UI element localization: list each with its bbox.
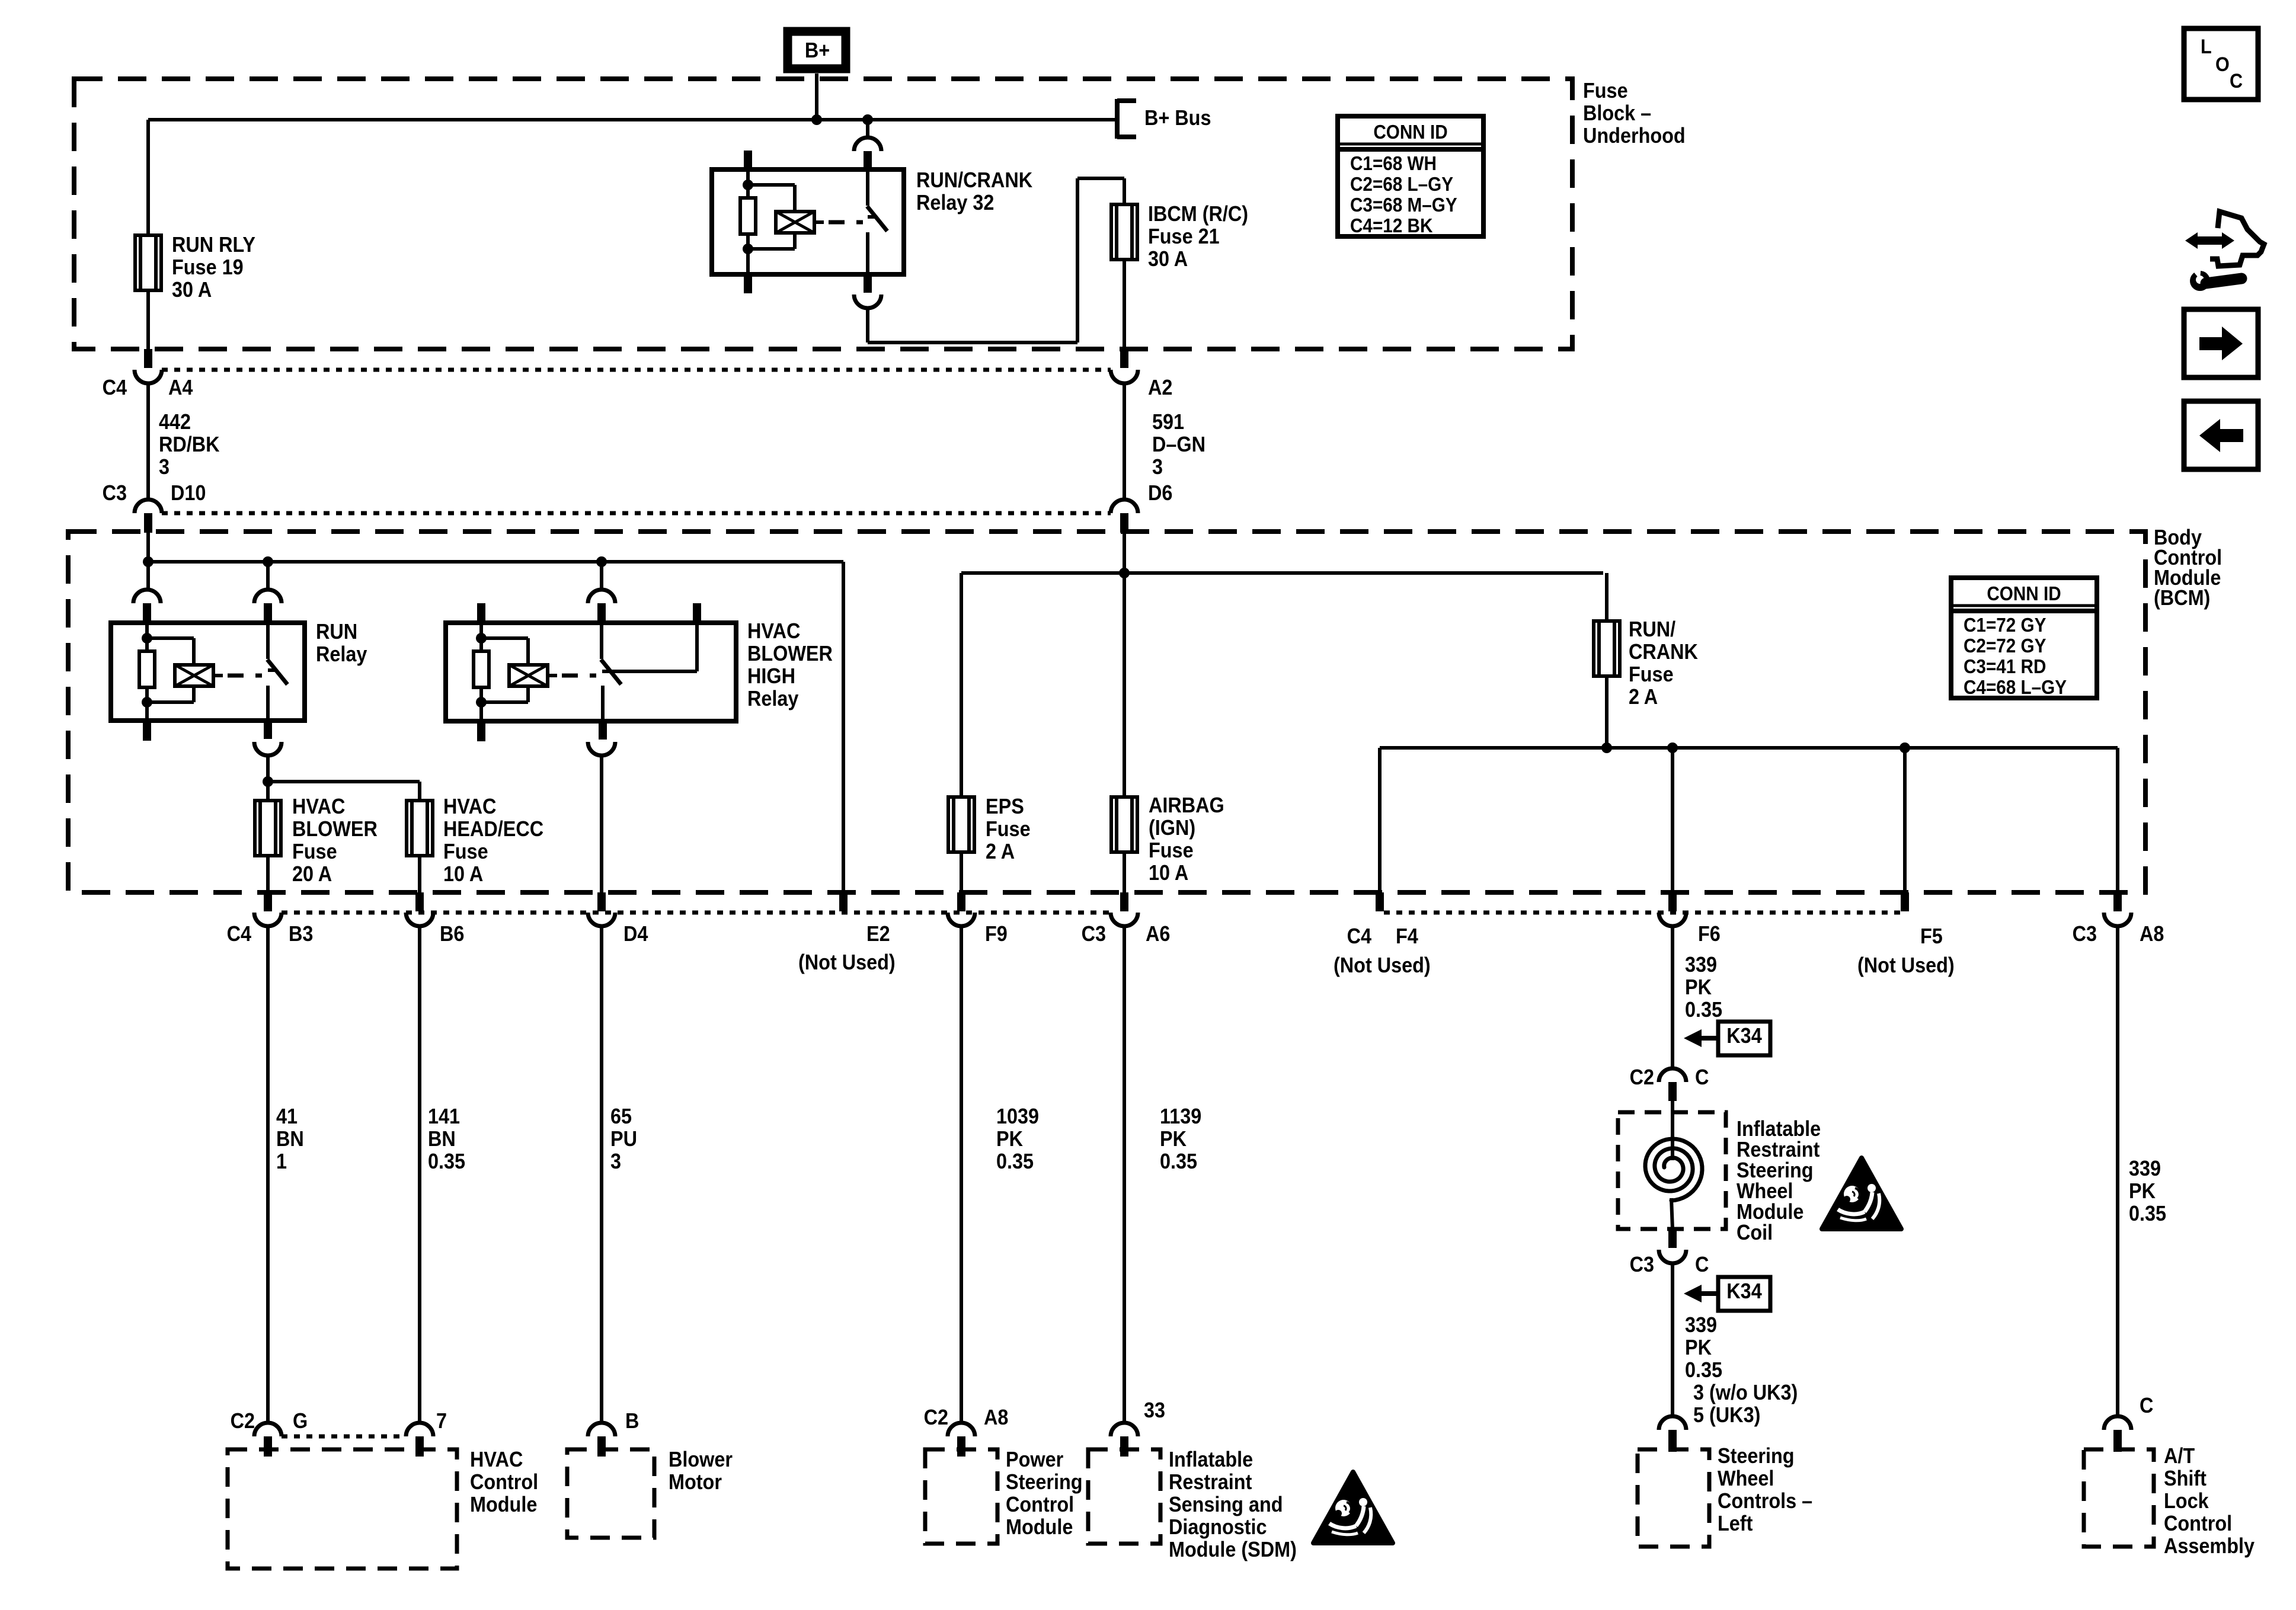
wire relay K32 suppressor lead [814, 220, 824, 224]
switch relay RUN [267, 623, 287, 721]
pin label A4 [168, 376, 193, 399]
wire 1139 PK to SDM [1123, 926, 1126, 1423]
svg-text:Control: Control [1006, 1493, 1074, 1516]
connector C3-D10 [135, 500, 162, 533]
pin label B6 [440, 922, 464, 946]
node rail at F5 [1900, 742, 1910, 753]
wire BCM rail lower [1380, 746, 2118, 750]
airbag warning triangle coil [1822, 1158, 1901, 1229]
dashed link relay K32 [829, 220, 863, 225]
PSCM label [1006, 1448, 1083, 1539]
wire HEAD/ECC fuse to B6 [418, 856, 421, 892]
svg-text:41: 41 [276, 1105, 298, 1128]
CONN ID table fuse block [1338, 116, 1483, 236]
suppressor box relay HVAC [509, 665, 548, 686]
svg-text:Diagnostic: Diagnostic [1169, 1515, 1267, 1539]
svg-text:65: 65 [610, 1105, 632, 1128]
A/T Shift Lock dashed box [2084, 1449, 2154, 1547]
svg-text:C2: C2 [231, 1409, 255, 1433]
wire HVAC BLOWER fuse to B3 [266, 856, 270, 892]
wire into coil [1671, 1101, 1674, 1160]
HVAC Control Module label [470, 1448, 538, 1516]
svg-text:3: 3 [159, 455, 170, 479]
wire 442 RD/BK [146, 383, 150, 500]
svg-text:Relay: Relay [316, 642, 367, 666]
relay K32 label [916, 168, 1032, 215]
wire label 442 RD/BK 3 [159, 410, 220, 479]
connector C2-A8 PSCM [948, 1423, 975, 1457]
Blower Motor dashed box [567, 1449, 654, 1538]
wire 591 D-GN [1123, 383, 1126, 500]
svg-text:CRANK: CRANK [1629, 640, 1698, 664]
wire fuse F21 to connector A2 [1123, 260, 1126, 349]
svg-text:(Not Used): (Not Used) [1857, 953, 1955, 977]
svg-text:339: 339 [2129, 1157, 2161, 1180]
suppressor box relay RUN [175, 665, 213, 686]
svg-text:HEAD/ECC: HEAD/ECC [443, 817, 543, 841]
fuse RUN/CRANK 2A [1594, 621, 1620, 676]
connector C4-A4 [135, 349, 162, 383]
power feed B+ terminal box [788, 31, 846, 69]
svg-text:B+ Bus: B+ Bus [1144, 106, 1211, 130]
svg-text:CONN ID: CONN ID [1373, 121, 1447, 143]
fuse F19 label [172, 233, 255, 302]
svg-text:O: O [2215, 53, 2230, 76]
node relay RUN out branch [263, 776, 273, 787]
svg-text:G: G [293, 1409, 308, 1433]
node junction relay32 tap [862, 114, 873, 125]
svg-text:C4: C4 [103, 376, 127, 399]
svg-text:BN: BN [428, 1127, 456, 1151]
wire rail drop F5 [1903, 748, 1907, 892]
svg-text:C3: C3 [103, 481, 127, 505]
svg-text:HVAC: HVAC [747, 619, 800, 643]
svg-text:F5: F5 [1920, 924, 1943, 948]
svg-text:B+: B+ [805, 39, 830, 62]
svg-text:141: 141 [428, 1105, 460, 1128]
fuse HVAC HEAD/ECC label [443, 795, 543, 886]
wire relay RUN suppressor lead [213, 674, 223, 677]
relay HVAC BLOWER HIGH label [747, 619, 833, 710]
svg-text:Module: Module [1006, 1515, 1073, 1539]
pin label C2 G [231, 1409, 308, 1433]
pin label F5 [1857, 924, 1955, 977]
connector row line F4-F5 [1384, 911, 1901, 915]
pin relay K32 coil bottom stub [744, 274, 752, 293]
SDM label [1169, 1448, 1297, 1561]
svg-text:F4: F4 [1396, 924, 1418, 948]
dashed link relay RUN [228, 674, 262, 678]
svg-text:A4: A4 [168, 376, 193, 399]
relay K32 RUN/CRANK box [712, 169, 904, 274]
svg-text:F9: F9 [985, 922, 1008, 946]
relay RUN label [316, 620, 367, 666]
svg-text:Fuse: Fuse [1149, 838, 1194, 862]
svg-text:0.35: 0.35 [1685, 998, 1722, 1022]
svg-text:Steering: Steering [1737, 1158, 1814, 1182]
wire label 1139 PK 0.35 [1160, 1105, 1201, 1173]
dashed link relay HVAC [562, 674, 596, 678]
svg-text:C1=72 GY: C1=72 GY [1964, 614, 2046, 636]
svg-text:C4=12 BK: C4=12 BK [1350, 215, 1433, 237]
resistor relay K32 coil [740, 198, 756, 234]
pin label D4 [623, 922, 648, 946]
pin label C2 coil [1630, 1065, 1709, 1089]
svg-text:C3: C3 [1082, 922, 1106, 946]
wire bus to relay K32 switch [866, 120, 869, 138]
svg-text:591: 591 [1152, 410, 1184, 434]
connector relay K32 switch-out [854, 274, 881, 308]
svg-text:A6: A6 [1146, 922, 1170, 946]
forward reference arrow box [2184, 309, 2258, 377]
svg-text:C2: C2 [924, 1406, 948, 1429]
switch relay K32 [867, 169, 887, 274]
connector relay RUN coil-in [133, 590, 161, 623]
svg-text:PK: PK [1685, 975, 1712, 999]
wire relay HVAC out to D4 [600, 756, 603, 892]
pin label B [625, 1409, 639, 1433]
svg-text:C3: C3 [1630, 1253, 1654, 1276]
svg-text:B3: B3 [289, 922, 313, 946]
svg-text:Motor: Motor [669, 1470, 722, 1494]
svg-text:Fuse: Fuse [986, 817, 1031, 841]
svg-text:1139: 1139 [1160, 1105, 1201, 1128]
wire label 591 D-GN 3 [1152, 410, 1205, 479]
wire 339 PK A8 to shift lock [2116, 926, 2119, 1416]
pin relay HVAC coil bottom stub [477, 721, 485, 741]
pin label F6 [1698, 922, 1721, 946]
connector F6 [1659, 892, 1686, 926]
fuse EPS label [986, 795, 1031, 863]
wire relay HVAC suppressor branch [481, 638, 528, 702]
svg-text:Fuse: Fuse [443, 840, 488, 863]
fuse HVAC BLOWER 20A [255, 801, 281, 856]
svg-text:2 A: 2 A [1629, 685, 1658, 709]
connector relay RUN switch-in [254, 590, 282, 623]
svg-text:Coil: Coil [1737, 1221, 1773, 1244]
svg-text:K34: K34 [1726, 1024, 1761, 1048]
wire relay RUN suppressor branch [147, 638, 194, 702]
connector C2-C coil [1659, 1068, 1686, 1101]
wire label 339 PK 0.35 upper [1685, 953, 1722, 1022]
svg-text:BLOWER: BLOWER [292, 817, 378, 841]
wire label 41 BN 1 [276, 1105, 304, 1173]
connector D6 [1111, 500, 1138, 533]
svg-text:0.35: 0.35 [996, 1150, 1034, 1173]
svg-text:C: C [1695, 1065, 1709, 1089]
svg-text:C3: C3 [2073, 922, 2097, 946]
node rail at D6 [1119, 568, 1130, 578]
connector relay HVAC common-in [588, 590, 615, 623]
resistor relay RUN coil [139, 651, 155, 687]
relay HVAC BLOWER HIGH box [446, 623, 736, 721]
svg-text:D10: D10 [171, 481, 206, 505]
pin label D6 [1148, 481, 1172, 505]
connector 33 SDM [1111, 1423, 1138, 1457]
vehicle repair icon [2185, 212, 2264, 291]
svg-text:RUN RLY: RUN RLY [172, 233, 255, 257]
B+ Bus label [1144, 106, 1211, 130]
svg-text:A8: A8 [984, 1406, 1008, 1429]
wire bus to HVAC relay common [600, 562, 603, 590]
svg-text:(Not Used): (Not Used) [1334, 953, 1431, 977]
wire label 65 PU 3 [610, 1105, 637, 1173]
connector relay K32 switch-in [854, 137, 881, 169]
svg-text:Control: Control [470, 1470, 538, 1494]
svg-text:D–GN: D–GN [1152, 433, 1205, 456]
pin label C3 [103, 481, 127, 505]
coil spiral symbol [1645, 1139, 1702, 1201]
pin relay RUN coil bottom stub [143, 721, 151, 741]
resistor relay HVAC coil [474, 651, 489, 687]
node bus at RUN relay switch [263, 556, 273, 567]
svg-text:33: 33 [1144, 1398, 1165, 1422]
wire 339 PK coil to steering [1671, 1263, 1674, 1416]
svg-text:Restraint: Restraint [1169, 1470, 1252, 1494]
wire bus down to fuse F19 [146, 120, 150, 235]
fuse AIRBAG label [1149, 793, 1224, 885]
wire AIRBAG fuse to A6 [1123, 852, 1126, 892]
pin label 7 [436, 1409, 447, 1433]
connector B blower motor [588, 1423, 615, 1457]
connector row line C4 [162, 368, 1111, 372]
svg-text:D4: D4 [623, 922, 648, 946]
pin label C4 bottom [227, 922, 251, 946]
pin label C3 coil [1630, 1253, 1709, 1276]
relay RUN box [111, 623, 305, 721]
connector A2 [1111, 349, 1138, 383]
svg-text:Module: Module [470, 1493, 537, 1516]
svg-text:(BCM): (BCM) [2154, 586, 2210, 610]
svg-text:EPS: EPS [986, 795, 1024, 818]
svg-text:PK: PK [1685, 1336, 1712, 1359]
pin E2 label [798, 922, 896, 974]
relay K32 coil wire [746, 169, 750, 274]
Steering Wheel Controls label [1718, 1444, 1812, 1535]
svg-text:(Not Used): (Not Used) [798, 950, 896, 974]
svg-text:Fuse 19: Fuse 19 [172, 255, 244, 279]
svg-text:Block –: Block – [1583, 101, 1651, 125]
svg-text:Sensing and: Sensing and [1169, 1493, 1283, 1516]
node relay K32 coil bottom [743, 244, 753, 254]
pin label F4 [1334, 924, 1431, 977]
svg-text:C: C [1695, 1253, 1709, 1276]
switch relay HVAC [601, 623, 621, 721]
wire 1039 PK to PSCM [960, 926, 963, 1423]
backward reference arrow box [2184, 401, 2258, 469]
svg-text:RUN: RUN [316, 620, 357, 644]
wire BCM rail upper [961, 571, 1603, 575]
pin relay HVAC output top stub [693, 603, 701, 623]
svg-text:Fuse: Fuse [1583, 79, 1628, 103]
A/T Shift Lock label [2164, 1444, 2255, 1558]
wire fuse F19 to connector C4-A4 [146, 290, 150, 349]
wire label UK3 variants [1693, 1381, 1798, 1427]
svg-text:2 A: 2 A [986, 840, 1015, 863]
pin E2 stub not used [839, 892, 848, 911]
wire 41 BN to HVAC control [266, 926, 270, 1423]
node relay K32 coil top [743, 180, 753, 190]
svg-text:PU: PU [610, 1127, 637, 1151]
svg-text:Fuse: Fuse [292, 840, 337, 863]
svg-text:IBCM (R/C): IBCM (R/C) [1148, 202, 1248, 226]
svg-text:Fuse: Fuse [1629, 662, 1674, 686]
pin label C2 A8 [924, 1406, 1009, 1429]
node junction B+ drop [811, 114, 822, 125]
connector C shift lock [2104, 1416, 2131, 1452]
svg-text:Left: Left [1718, 1512, 1753, 1535]
svg-text:Module (SDM): Module (SDM) [1169, 1538, 1297, 1561]
relay RUN coil wire [145, 623, 149, 721]
wire bus to RUN relay coil [146, 562, 150, 590]
wire label 339 PK 0.35 lower [1685, 1313, 1722, 1382]
connector D4 [588, 892, 615, 926]
wire 339 PK F6 to coil [1671, 926, 1674, 1068]
svg-text:C3=68 M–GY: C3=68 M–GY [1350, 194, 1457, 216]
wire bus drop E2 [842, 562, 845, 892]
svg-text:B6: B6 [440, 922, 464, 946]
svg-text:Wheel: Wheel [1718, 1467, 1774, 1490]
wire relay RUN out [266, 756, 270, 801]
svg-text:BN: BN [276, 1127, 304, 1151]
pin F4 stub not used [1376, 892, 1384, 911]
svg-text:C: C [2230, 70, 2243, 92]
svg-text:BLOWER: BLOWER [747, 642, 833, 665]
Blower Motor label [669, 1448, 733, 1494]
LOC reference box [2184, 28, 2258, 100]
svg-text:HIGH: HIGH [747, 664, 795, 688]
fuse F21 label [1148, 202, 1248, 271]
connector row line D6 [162, 511, 1111, 516]
connector relay RUN switch-out [254, 721, 282, 756]
svg-text:30 A: 30 A [1148, 247, 1188, 271]
svg-text:339: 339 [1685, 1313, 1717, 1337]
node rail at RUN/CRANK fuse [1601, 742, 1612, 753]
svg-text:Restraint: Restraint [1737, 1138, 1819, 1161]
svg-text:D6: D6 [1148, 481, 1172, 505]
wire branch to HEAD/ECC fuse [268, 782, 420, 801]
pin label C shift lock [2140, 1394, 2153, 1417]
pin label C4 [103, 376, 127, 399]
connector C3-C coil [1659, 1229, 1686, 1263]
svg-text:C1=68 WH: C1=68 WH [1350, 153, 1437, 175]
fuse AIRBAG IGN 10A [1111, 797, 1137, 852]
svg-text:10 A: 10 A [443, 862, 483, 886]
svg-text:Steering: Steering [1718, 1444, 1795, 1468]
connector relay HVAC switch-out [588, 721, 615, 756]
B+ Bus bracket terminal [1117, 99, 1136, 139]
svg-text:L: L [2201, 36, 2212, 58]
wire rail to RUN/CRANK fuse [1605, 573, 1609, 621]
node bus at D10 [143, 556, 154, 567]
Fuse Block - Underhood dashed box [74, 79, 1572, 349]
wire rail drop F4 [1378, 748, 1382, 892]
wire rail drop F6 [1671, 748, 1674, 892]
suppressor box relay K32 [776, 212, 814, 233]
wire D6 to AIRBAG fuse [1123, 573, 1126, 797]
svg-text:RUN/CRANK: RUN/CRANK [916, 168, 1032, 192]
coil module label [1737, 1117, 1821, 1244]
svg-text:PK: PK [1160, 1127, 1187, 1151]
svg-text:Inflatable: Inflatable [1737, 1117, 1821, 1141]
svg-text:0.35: 0.35 [2129, 1202, 2166, 1225]
wire relay HVAC suppressor lead [548, 674, 557, 677]
pin label 33 [1144, 1398, 1165, 1422]
svg-text:Fuse 21: Fuse 21 [1148, 225, 1220, 248]
svg-text:10 A: 10 A [1149, 861, 1188, 885]
wire EPS fuse to F9 [960, 852, 963, 892]
svg-text:C2: C2 [1630, 1065, 1654, 1089]
wire out of coil [1671, 1198, 1673, 1229]
K34 splice pointer upper [1684, 1022, 1770, 1055]
svg-text:442: 442 [159, 410, 191, 434]
fuse HVAC BLOWER label [292, 795, 378, 886]
wire label 339 PK 0.35 right [2129, 1157, 2166, 1225]
svg-text:E2: E2 [866, 922, 890, 946]
svg-text:1: 1 [276, 1150, 287, 1173]
svg-text:HVAC: HVAC [292, 795, 345, 818]
wire B+ to bus [815, 73, 818, 120]
pin label C3 bottom [1082, 922, 1106, 946]
svg-text:A8: A8 [2140, 922, 2164, 946]
svg-text:0.35: 0.35 [428, 1150, 465, 1173]
Steering Wheel Controls dashed box [1638, 1449, 1709, 1547]
svg-text:Relay 32: Relay 32 [916, 191, 994, 215]
svg-text:RUN/: RUN/ [1629, 617, 1676, 641]
wire D10 into BCM [146, 533, 150, 562]
svg-text:Controls –: Controls – [1718, 1489, 1812, 1513]
connector row line B3-A6 [282, 911, 1111, 915]
node rail at F6 [1667, 742, 1678, 753]
connector B6 [406, 892, 433, 926]
pin label D10 [171, 481, 206, 505]
wire relay K32 out to fuse F21 [868, 178, 1124, 343]
svg-text:(IGN): (IGN) [1149, 816, 1195, 840]
HVAC Control Module dashed box [228, 1449, 457, 1569]
wire bus to RUN relay switch [266, 562, 270, 590]
svg-text:C4=68 L–GY: C4=68 L–GY [1964, 677, 2067, 699]
svg-text:7: 7 [436, 1409, 447, 1433]
svg-text:RD/BK: RD/BK [159, 433, 220, 456]
pin label A6 [1146, 922, 1170, 946]
pin label A2 [1148, 376, 1172, 399]
svg-text:PK: PK [2129, 1179, 2156, 1203]
Fuse Block - Underhood label [1583, 79, 1686, 148]
connector F9 [948, 892, 975, 926]
wire RUN/CRANK fuse to rail [1605, 676, 1609, 748]
svg-text:3: 3 [1152, 455, 1163, 479]
CONN ID table BCM [1951, 578, 2097, 698]
svg-text:C2=72 GY: C2=72 GY [1964, 635, 2046, 657]
pin label B3 [289, 922, 313, 946]
svg-text:CONN ID: CONN ID [1987, 583, 2061, 605]
svg-text:Lock: Lock [2164, 1489, 2209, 1513]
wire label 141 BN 0.35 [428, 1105, 465, 1173]
Power Steering Control Module dashed box [925, 1449, 997, 1544]
svg-text:A2: A2 [1148, 376, 1172, 399]
fuse EPS 2A [948, 797, 974, 852]
pin label F9 [985, 922, 1008, 946]
svg-text:1039: 1039 [996, 1105, 1039, 1128]
fuse F21 IBCM 30A [1111, 204, 1137, 260]
svg-text:C4: C4 [1347, 924, 1371, 948]
svg-text:30 A: 30 A [172, 278, 212, 302]
wire 65 PU to blower motor [600, 926, 603, 1423]
wire rail to EPS fuse [960, 573, 963, 797]
svg-text:Shift: Shift [2164, 1467, 2207, 1490]
wire label 1039 PK 0.35 [996, 1105, 1039, 1173]
svg-text:Wheel: Wheel [1737, 1179, 1793, 1203]
